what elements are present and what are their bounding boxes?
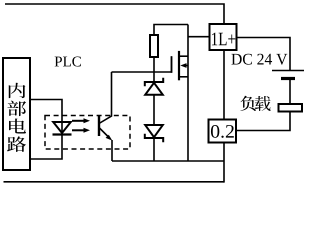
wire resistor top — [154, 25, 188, 36]
wire drain node to 1L+ left pin — [188, 36, 210, 38]
wire collector node to gate — [112, 56, 172, 72]
LED cathode bar — [53, 133, 72, 135]
zener diode VZ1 — [145, 78, 163, 95]
wire source/emitter common rail — [112, 160, 224, 162]
label 0.2 — [211, 125, 234, 138]
MOSFET source stub — [179, 76, 188, 78]
wire zener to rail — [153, 138, 155, 161]
wire PLC to LED anode — [30, 100, 62, 135]
label 负载 (load) — [240, 96, 255, 111]
optocoupler LED D1 — [53, 122, 71, 133]
MOSFET drain stub — [179, 55, 188, 57]
wire resistor bottom to zener — [153, 57, 155, 82]
optocoupler dashed box U1 — [45, 116, 130, 150]
label 电 — [9, 119, 26, 134]
wire bottom rail — [4, 181, 225, 183]
PLC internal circuit box 内部电路 — [3, 58, 30, 170]
label 路 — [7, 136, 26, 151]
wire LED cathode to PLC — [30, 135, 62, 160]
MOSFET drain/source vertical lead — [187, 25, 189, 162]
zener diode VZ2 — [145, 125, 163, 142]
phototransistor collector — [99, 72, 112, 124]
resistor R1 — [150, 35, 158, 57]
wire emitter to rail — [111, 140, 113, 161]
light arrow 2 — [72, 128, 90, 133]
wire load to 0.2 terminal — [236, 112, 290, 131]
wire 1L+ right pin to battery — [237, 38, 291, 71]
label 部 — [7, 101, 26, 116]
wire top supply rail — [5, 4, 224, 24]
MOSFET body arrow — [180, 63, 188, 68]
label 内 — [9, 83, 26, 98]
wire 1L+ bottom to 0.2 top — [223, 50, 225, 120]
battery B1 negative plate — [281, 77, 295, 80]
terminal box 0.2 — [209, 120, 237, 143]
label DC 24 V — [231, 54, 287, 65]
wire between zeners — [153, 95, 155, 125]
wire battery to load — [289, 79, 291, 104]
phototransistor emitter with arrow — [99, 128, 112, 141]
label 1L+ — [212, 33, 235, 46]
load resistor RL — [279, 104, 303, 112]
light arrow 1 — [72, 118, 90, 123]
terminal box 1L+ — [210, 24, 237, 50]
battery B1 positive plate — [272, 70, 304, 72]
MOSFET V1 gate bar — [171, 56, 173, 73]
label PLC — [55, 56, 81, 66]
MOSFET channel bar — [178, 51, 180, 80]
wire 0.2 bottom to bottom rail — [223, 143, 225, 183]
phototransistor Q1 base bar — [98, 115, 100, 136]
